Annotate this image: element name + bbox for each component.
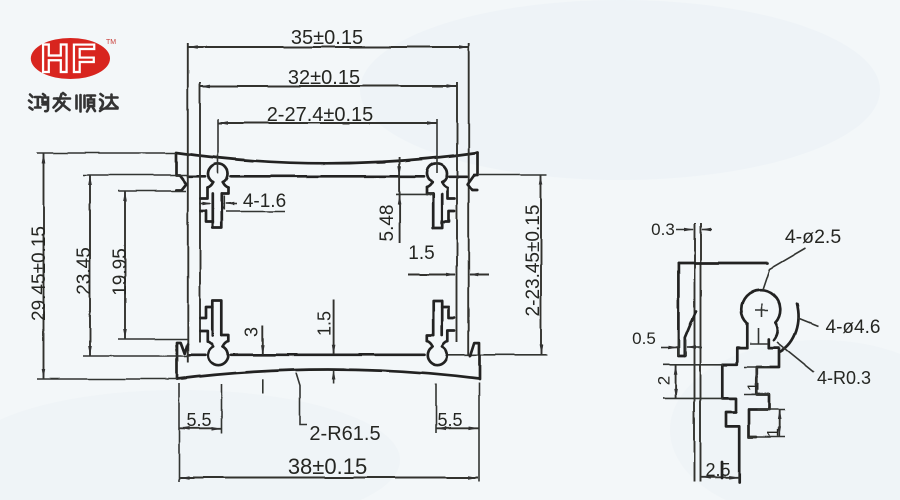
boss circle (detail): [741, 290, 780, 324]
char fa: [54, 93, 71, 111]
svg-text:35±0.15: 35±0.15: [291, 27, 363, 49]
dim 2: [675, 365, 677, 399]
dim 4-1.6 leader: [226, 211, 285, 213]
channel slot tail: [721, 462, 724, 478]
dim 27.4 extensions through boss centers: [217, 119, 219, 174]
svg-text:TM: TM: [106, 39, 116, 46]
boss bottom-left: [208, 346, 228, 365]
boss top-right screw channel: [448, 188, 455, 199]
top wall inner surface: [188, 175, 205, 178]
svg-text:2-27.4±0.15: 2-27.4±0.15: [267, 104, 374, 126]
boss top-right: [427, 163, 447, 182]
char hong: [29, 94, 48, 111]
svg-text:32±0.15: 32±0.15: [288, 67, 360, 89]
svg-text:38±0.15: 38±0.15: [288, 454, 367, 479]
dim 19.95 line: [124, 191, 126, 339]
dim 1 upper: [756, 368, 758, 394]
dim 5.5 left line: [179, 427, 222, 429]
svg-text:4-1.6: 4-1.6: [243, 191, 286, 212]
svg-text:1: 1: [746, 382, 763, 391]
svg-text:2-23.45±0.15: 2-23.45±0.15: [523, 205, 544, 317]
inner T arrow: [750, 328, 768, 344]
svg-text:5.48: 5.48: [377, 205, 398, 242]
leader phi2.5: [763, 248, 806, 290]
dim 29.45 line: [43, 153, 45, 379]
staircase left: [722, 348, 747, 482]
svg-text:3: 3: [242, 327, 262, 337]
dim 38 line: [180, 477, 478, 479]
hook R0.3: [774, 323, 778, 340]
boss bottom-left screw channel: [201, 331, 208, 342]
dim 0.5: [678, 340, 685, 356]
top surface line: [678, 262, 768, 265]
boss bottom-right screw channel: [448, 331, 455, 342]
dim 27.4 line: [218, 122, 437, 124]
svg-text:0.5: 0.5: [632, 329, 656, 348]
dim 5.5 right line: [436, 427, 479, 429]
dim 1 lower: [778, 409, 780, 437]
neck right: [767, 339, 770, 348]
bottom inner right + extension line to right dim: [448, 354, 547, 356]
svg-text:4-ø2.5: 4-ø2.5: [785, 226, 842, 248]
dim 5.48: [399, 157, 401, 243]
svg-text:0.3: 0.3: [651, 220, 675, 239]
svg-text:HF: HF: [40, 37, 97, 81]
svg-text:4-R0.3: 4-R0.3: [817, 368, 871, 388]
left wall outer: [678, 263, 684, 356]
char da: [100, 94, 118, 111]
boss bottom-right: [427, 346, 447, 365]
svg-text:4-ø4.6: 4-ø4.6: [826, 317, 881, 338]
svg-text:5.5: 5.5: [186, 410, 211, 430]
top-right corner lip: [468, 153, 478, 190]
boss top-left: [208, 164, 228, 183]
main view: [37, 43, 547, 482]
bottom-right corner wing fin: [471, 343, 480, 380]
long extension/wall lines (0.3 wall): [694, 223, 696, 482]
left wall slant: [685, 311, 696, 356]
dim 38 / 5.5 extension left: [178, 383, 180, 482]
svg-text:29.45±0.15: 29.45±0.15: [29, 226, 50, 321]
left wall outer face (merged with 35-dim extension): [187, 43, 189, 363]
right wall outer face (merged with 35-dim extension): [468, 43, 470, 355]
phantom arc 4.6: [781, 304, 799, 352]
dim 35 line: [188, 46, 469, 48]
svg-text:1: 1: [765, 428, 782, 437]
svg-text:23.45: 23.45: [74, 247, 95, 295]
svg-text:2.5: 2.5: [705, 460, 730, 480]
neck left: [746, 324, 749, 348]
detail view: [661, 223, 818, 482]
dim 1.5 right wall: [408, 274, 456, 276]
bottom wall inner surface: [188, 353, 206, 356]
svg-text:1.5: 1.5: [408, 243, 434, 264]
char shun: [77, 95, 96, 112]
boss top-left screw channel: [201, 188, 208, 199]
logo company name (CJK drawn as strokes): [29, 93, 118, 112]
svg-text:5.5: 5.5: [437, 410, 462, 430]
top wall outer arc R61.5: [176, 153, 478, 164]
right wall inner face (merged with 32-dim extension): [456, 82, 458, 342]
dim 2-23.45 line: [540, 175, 542, 355]
top-left corner lip: [176, 153, 186, 190]
staircase right: [749, 348, 780, 437]
dim 32 line: [200, 85, 457, 87]
bottom-left corner wing: [177, 343, 188, 380]
leader R0.3: [777, 342, 814, 372]
dim 2.5: [701, 476, 739, 478]
leader phi4.6: [798, 318, 818, 326]
svg-text:19.95: 19.95: [110, 248, 131, 296]
left wall inner face (merged with 32-dim extension): [199, 82, 201, 342]
svg-text:2-R61.5: 2-R61.5: [309, 423, 380, 445]
dim 38 / 5.5 extension right: [478, 383, 480, 482]
svg-text:2: 2: [655, 376, 674, 385]
dim 23.45 line: [89, 175, 91, 356]
dim 3: [262, 325, 264, 354]
logo ellipse: [31, 37, 116, 81]
plus mark: [755, 304, 768, 317]
bottom wall outer arc R61.5: [177, 370, 479, 379]
dim 1.5 center bottom: [333, 300, 335, 354]
svg-text:1.5: 1.5: [315, 311, 335, 336]
leader 2-R61.5: [296, 373, 307, 425]
dim 0.3: [676, 229, 693, 231]
